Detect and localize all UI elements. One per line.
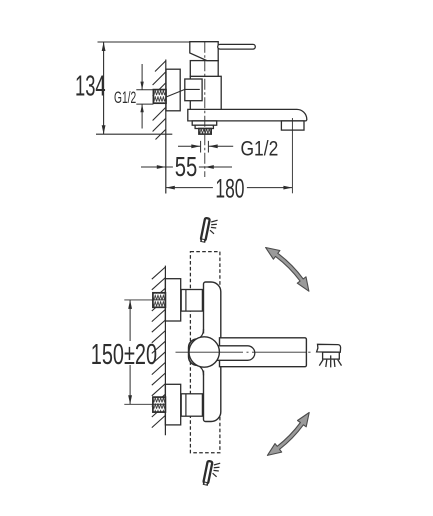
vertical axis centerline (side view)	[204, 42, 206, 177]
connector nut (side view)	[185, 79, 202, 101]
svg-text:55: 55	[175, 151, 198, 182]
inlet centerline top	[124, 299, 208, 301]
outlet G1/2 ticks	[201, 141, 209, 153]
G1/2 wall-thread dim extension lines	[136, 90, 153, 104]
bottom outlet step 2	[195, 125, 213, 128]
valve neck (side view)	[190, 61, 218, 77]
body edge flare into handle boss	[203, 334, 205, 371]
dimension line 134	[103, 42, 105, 134]
wall line (front view)	[164, 266, 166, 436]
bottom outlet step 1	[192, 121, 217, 125]
spout (side view)	[188, 109, 307, 121]
nut top (front view)	[181, 290, 202, 312]
outlet G1/2 arrows	[178, 145, 233, 147]
dashed stand-out rectangle	[190, 252, 220, 453]
top view: extension line bottom of 134	[96, 133, 172, 135]
eccentric cone line	[166, 89, 199, 97]
centerline over threads	[152, 300, 166, 404]
escutcheon bottom (front view)	[165, 384, 180, 425]
handle centerline	[176, 351, 311, 353]
escutcheon (side view)	[166, 69, 180, 111]
arrowhead 134 bottom	[102, 125, 106, 134]
rotation arrow top	[266, 248, 309, 292]
svg-text:180: 180	[215, 173, 244, 203]
nut bottom (front view)	[181, 394, 202, 416]
spout (front view)	[220, 338, 307, 367]
dim 180 line	[166, 187, 293, 189]
svg-text:G1/2: G1/2	[114, 88, 136, 107]
dim 55 line	[166, 166, 205, 168]
handle knob circle	[189, 337, 219, 367]
handle head (side view)	[190, 42, 218, 61]
wall line (side view)	[165, 60, 167, 194]
bottom outlet thread	[199, 129, 211, 135]
handle lever (side view)	[218, 44, 256, 49]
handle boss behind knob	[189, 339, 209, 365]
wall hatch (side view)	[153, 61, 166, 140]
spray icon bottom (handshower symbol)	[203, 461, 221, 486]
aerator under spout (side view)	[281, 121, 304, 130]
wall thread bottom (front view)	[153, 397, 166, 412]
spray icon top (handshower symbol)	[200, 218, 218, 243]
faucet body (side view)	[190, 76, 221, 110]
handle lever (front view)	[206, 346, 255, 361]
label 55	[173, 153, 199, 175]
inlet centerline bottom	[124, 403, 208, 405]
spray icon right (water from spout)	[317, 344, 342, 367]
G1/2 wall-thread dim arrows	[141, 64, 143, 129]
wall thread block (side view)	[153, 90, 166, 104]
svg-text:150±20: 150±20	[91, 339, 157, 371]
wall hatch (front view)	[152, 267, 166, 428]
label 180	[213, 175, 247, 198]
label 150±20	[89, 341, 152, 365]
top view: extension line top of 134	[98, 41, 219, 43]
wall thread top (front view)	[153, 293, 166, 308]
escutcheon top (front view)	[165, 279, 180, 321]
svg-text:G1/2: G1/2	[241, 136, 279, 160]
svg-text:134: 134	[75, 71, 106, 103]
dim 150±20 line	[129, 300, 131, 404]
spout outlet extension line	[291, 118, 293, 193]
arrowhead 134 top	[102, 42, 106, 51]
dim 55 outside arrows	[141, 166, 232, 168]
faucet body (front view)	[204, 282, 221, 422]
rotation arrow bottom	[267, 413, 309, 456]
